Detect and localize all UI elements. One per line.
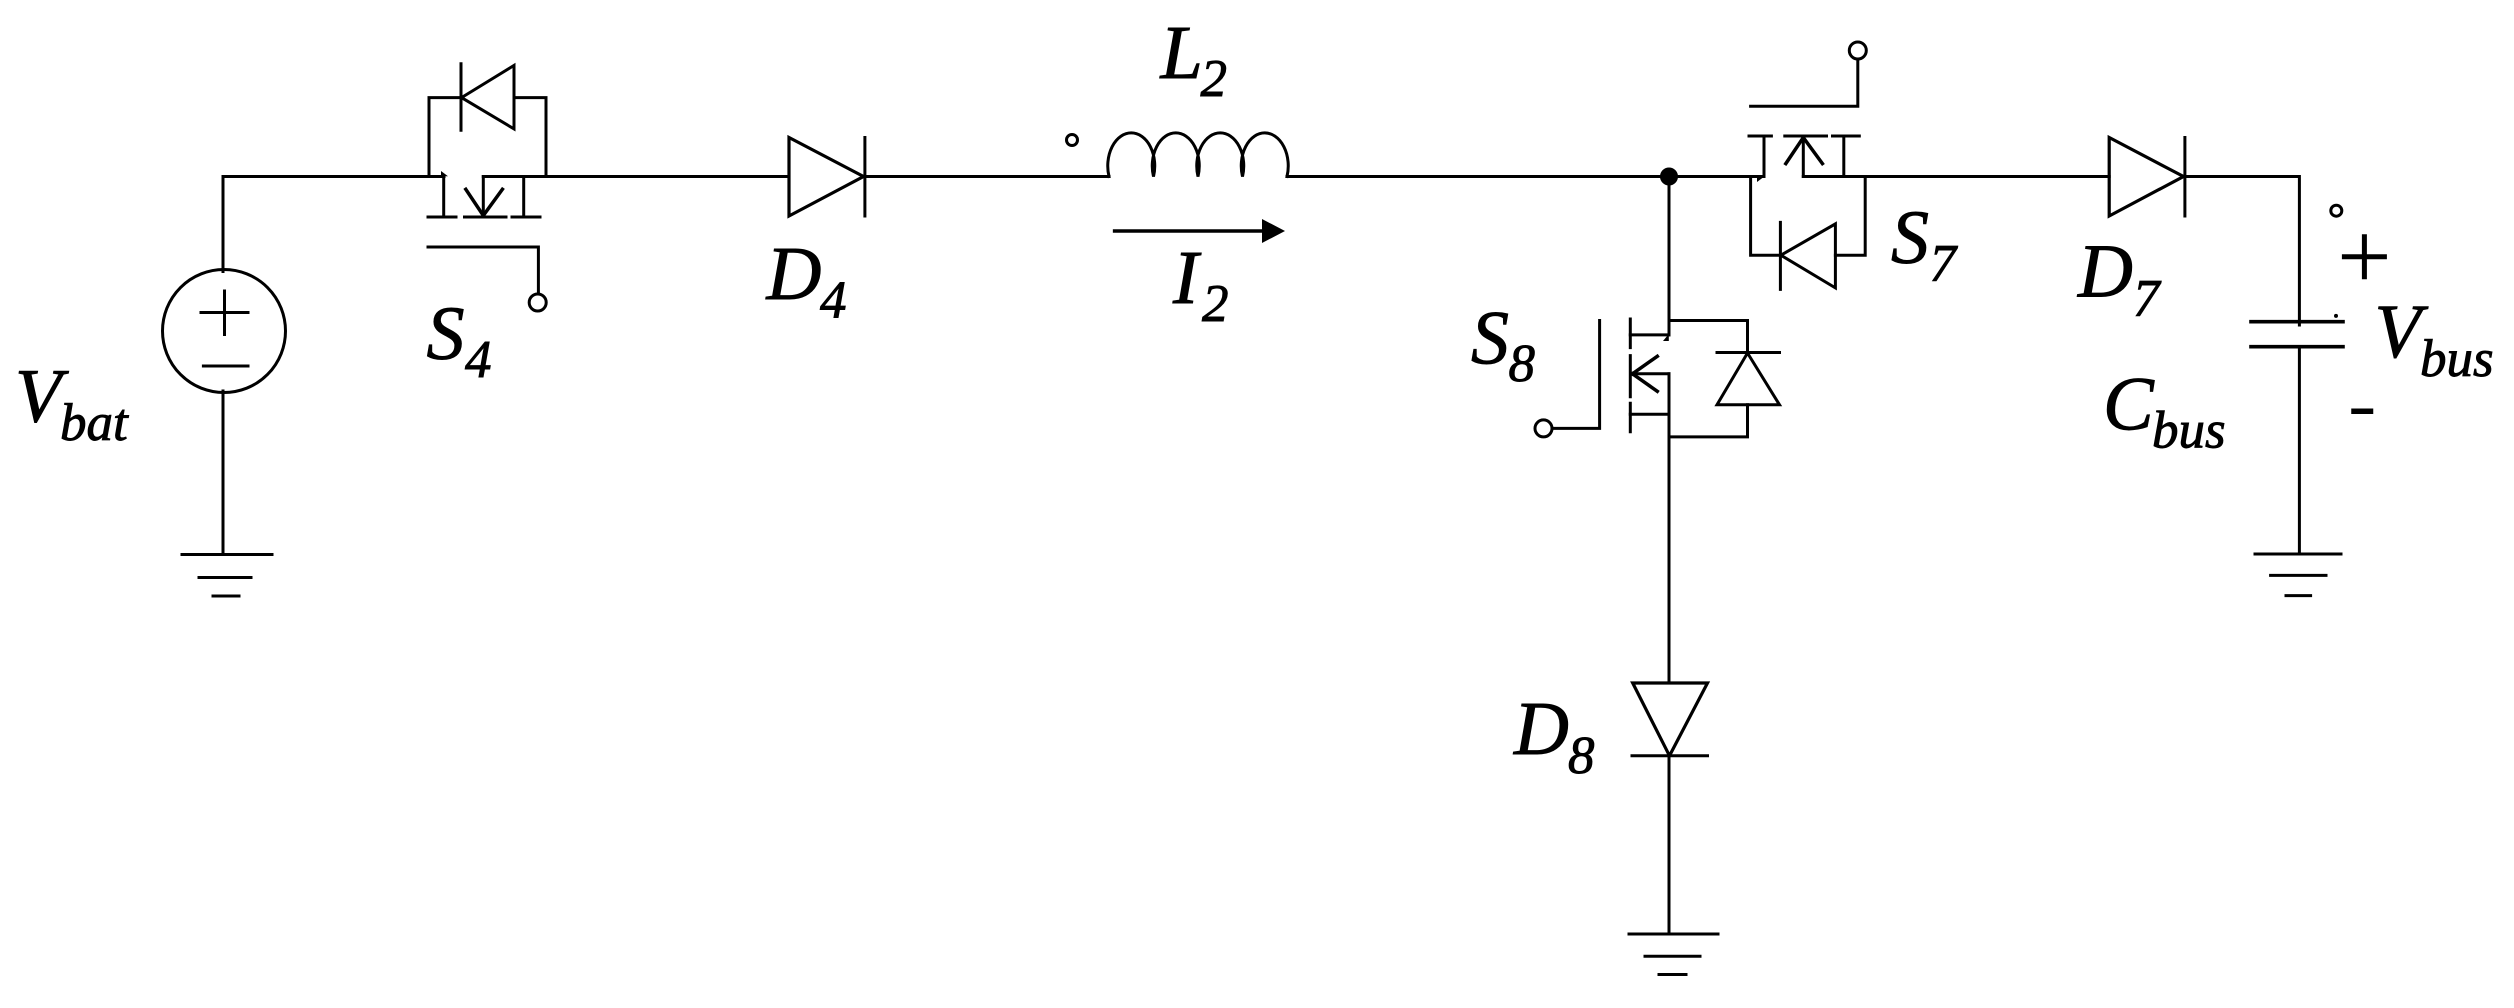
wire (S8 to D8) <box>1668 414 1671 683</box>
wire (D4 to L2) <box>865 175 1109 178</box>
svg-text:C: C <box>2103 362 2155 446</box>
svg-text:bus: bus <box>2420 330 2494 388</box>
wire (L2 to S7) <box>1287 175 1764 178</box>
label S8 <box>1471 297 1535 394</box>
current arrow I2 <box>1115 219 1285 243</box>
label Vbus <box>2375 290 2494 388</box>
label I2 <box>1172 236 1229 333</box>
MOSFET S7 <box>1749 42 1866 182</box>
inductor L2 <box>1108 133 1289 177</box>
ground (under D8) <box>1629 934 1718 975</box>
label D8 <box>1513 687 1595 785</box>
diode D4 <box>789 138 865 217</box>
svg-text:S: S <box>1891 196 1929 280</box>
svg-text:D: D <box>1513 687 1569 771</box>
svg-text:D: D <box>766 232 822 316</box>
label L2 <box>1160 11 1228 108</box>
svg-text:4: 4 <box>465 331 492 389</box>
node junction <box>1660 168 1678 186</box>
body diode of S7 <box>1751 177 1866 290</box>
plus sign (Vbus) <box>2344 237 2384 277</box>
label S4 <box>427 292 492 389</box>
svg-text:bus: bus <box>2152 402 2226 460</box>
body diode of S4 <box>429 64 546 177</box>
svg-text:S: S <box>1471 297 1509 381</box>
stray dot <box>2334 314 2338 318</box>
terminal dot (inductor left) <box>1067 135 1078 146</box>
MOSFET S4 <box>428 171 546 311</box>
svg-text:2: 2 <box>1201 50 1228 108</box>
body diode of S8 <box>1669 321 1780 437</box>
minus sign (Vbus) <box>2354 408 2371 414</box>
svg-text:2: 2 <box>1202 275 1229 333</box>
voltage source Vbat <box>163 177 286 555</box>
wire (S7 to D7) <box>1803 175 2109 178</box>
svg-text:L: L <box>1160 11 1203 95</box>
ground (under Vbat) <box>182 555 272 597</box>
label D4 <box>766 232 847 330</box>
svg-text:S: S <box>427 292 465 376</box>
label Vbat <box>15 354 129 452</box>
svg-text:4: 4 <box>820 272 847 330</box>
label Cbus <box>2103 362 2226 459</box>
wire (D7 to Cbus corner) <box>2185 177 2300 326</box>
svg-text:I: I <box>1172 236 1202 320</box>
label D7 <box>2077 230 2162 329</box>
label S7 <box>1891 196 1959 293</box>
capacitor Cbus <box>2251 322 2343 554</box>
terminal dot (Vbus) <box>2331 205 2342 216</box>
wire (D8 to ground) <box>1668 756 1671 934</box>
wire (S4 to D4) <box>483 175 789 178</box>
svg-text:7: 7 <box>2133 270 2162 328</box>
svg-text:8: 8 <box>1568 727 1595 785</box>
ground (under Cbus) <box>2255 554 2341 596</box>
svg-text:D: D <box>2077 230 2133 314</box>
svg-text:7: 7 <box>1930 235 1959 293</box>
wire (Vbat top to S4 drain) <box>223 175 444 178</box>
diode D7 <box>2109 138 2185 217</box>
svg-text:8: 8 <box>1509 335 1536 393</box>
MOSFET S8 <box>1535 177 1669 437</box>
svg-text:bat: bat <box>60 394 129 452</box>
diode D8 <box>1632 683 1708 756</box>
